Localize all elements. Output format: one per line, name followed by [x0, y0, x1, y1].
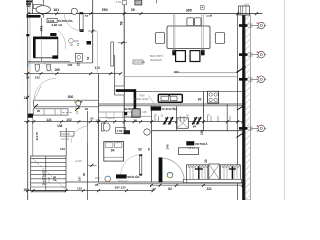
washing machine	[75, 53, 82, 61]
svg-text:94: 94	[193, 125, 197, 129]
svg-text:35: 35	[131, 8, 135, 12]
corner tick band	[34, 104, 38, 108]
svg-text:385: 385	[186, 9, 192, 13]
svg-text:94: 94	[111, 149, 115, 153]
svg-text:4.2 m2: 4.2 m2	[61, 137, 69, 141]
svg-text:165: 165	[67, 63, 72, 67]
detska label box	[186, 141, 194, 145]
stairs treads	[31, 158, 66, 187]
right wall tick y70	[237, 67, 246, 73]
bath door stub	[50, 33, 56, 36]
wc fixture 1	[35, 65, 40, 72]
dashed corridor segment	[63, 112, 73, 114]
stairs center rail	[45, 156, 47, 191]
wall left vertical	[27, 0, 29, 200]
svg-text:148: 148	[57, 124, 63, 128]
wall washbasin left	[32, 0, 34, 14]
armchair X	[209, 164, 220, 179]
wall rooms divider y130.7	[152, 130, 243, 132]
wall mid band left end	[33, 100, 35, 107]
door leaf 2	[111, 42, 114, 66]
wall dining x174 over table	[172, 13, 174, 52]
door label circle bathroom	[69, 39, 74, 44]
mid dim line y73.6	[24, 73, 121, 75]
svg-text:BUD.OBÝV.: BUD.OBÝV.	[150, 54, 164, 58]
right wall tick y135	[237, 133, 245, 138]
shaft box	[115, 86, 125, 95]
dim ext x97	[96, 31, 98, 74]
door4 caps	[139, 154, 142, 156]
svg-text:245: 245	[166, 144, 170, 149]
svg-text:13.04 m2: 13.04 m2	[188, 146, 200, 150]
wall x124 lower	[123, 95, 125, 131]
leader line	[149, 96, 156, 107]
shower2 X box	[177, 118, 188, 129]
entry door arc	[64, 14, 81, 31]
black box door label	[124, 130, 130, 134]
svg-text:150: 150	[200, 129, 204, 135]
corridor door diagonal	[34, 86, 41, 100]
gray pier top	[135, 0, 142, 5]
svg-text:2.5: 2.5	[53, 176, 57, 181]
svg-text:1.08: 1.08	[141, 110, 147, 114]
tick pair satnik	[88, 164, 97, 166]
kitchen sink unit	[158, 94, 182, 102]
wall bathroom divider	[40, 18, 42, 61]
door label box LED	[116, 128, 126, 134]
svg-text:100: 100	[248, 26, 253, 29]
sofa2	[221, 165, 241, 180]
svg-text:140: 140	[60, 147, 65, 151]
faint dashed grid line	[22, 30, 24, 108]
wc fixture 2	[47, 65, 51, 71]
svg-text:20: 20	[77, 62, 81, 66]
svg-text:26: 26	[24, 188, 28, 192]
spalna label box	[116, 174, 127, 178]
svg-text:102: 102	[66, 118, 72, 122]
svg-text:4x175: 4x175	[35, 132, 39, 141]
svg-text:+3,20: +3,20	[75, 159, 83, 163]
wall segment black top-left	[27, 15, 41, 18]
marker specks	[257, 23, 259, 24]
wall x176.5	[176, 106, 178, 131]
circle marker mid	[144, 129, 150, 135]
shower	[34, 37, 58, 58]
svg-text:300: 300	[68, 95, 74, 99]
svg-text:192: 192	[102, 8, 108, 12]
tick bottom x83	[82, 189, 85, 192]
door3 black leaf	[159, 157, 163, 182]
svg-text:1.61: 1.61	[116, 0, 122, 4]
tick crosses y109	[75, 106, 80, 111]
svg-text:95: 95	[90, 117, 94, 121]
wall mid band left upper	[34, 99, 99, 101]
corridor door marker	[76, 101, 81, 106]
right wall thin line	[237, 13, 239, 201]
wall x227.2	[226, 104, 228, 131]
kitchen room label row	[151, 106, 162, 110]
bathroom label box	[47, 19, 57, 23]
line y116 right	[124, 115, 151, 117]
svg-text:57: 57	[85, 14, 89, 18]
section marker row 1	[239, 22, 267, 29]
dim tick hall	[88, 30, 97, 32]
svg-text:3xJKHNE: 3xJKHNE	[134, 60, 146, 64]
wc door arc	[41, 63, 53, 75]
bottom dim line	[28, 190, 153, 192]
circle marker detska	[167, 172, 173, 178]
chair top 1	[187, 18, 194, 26]
svg-text:95: 95	[37, 109, 41, 113]
door swing corridor	[34, 78, 56, 100]
top dim line	[28, 13, 263, 15]
chair top 2	[195, 18, 201, 26]
svg-text:KANAL Ø110: KANAL Ø110	[133, 97, 149, 101]
svg-text:125: 125	[95, 119, 100, 123]
stairs outline	[31, 156, 66, 191]
chair right	[215, 33, 224, 44]
svg-text:100: 100	[248, 55, 253, 58]
svg-text:162: 162	[35, 75, 40, 79]
bathroom bottom wall	[28, 61, 70, 63]
toilet 2	[101, 123, 104, 131]
bottom dim inner	[150, 184, 243, 186]
tick x27 y97	[26, 96, 29, 99]
svg-text:82: 82	[168, 187, 172, 191]
stairwell wall x66	[65, 128, 67, 156]
bath door arc	[58, 31, 66, 49]
svg-text:245: 245	[95, 176, 100, 180]
svg-text:4.98 m2: 4.98 m2	[51, 23, 62, 27]
svg-text:2 4 6: 2 4 6	[47, 177, 51, 183]
svg-text:85: 85	[82, 172, 86, 176]
svg-text:120: 120	[77, 187, 82, 191]
svg-text:6: 6	[148, 147, 150, 151]
entry door leaf	[80, 13, 84, 31]
stairs bottom double	[31, 191, 66, 193]
sofa1	[187, 165, 209, 180]
svg-text:221: 221	[207, 187, 213, 191]
section marker row 3	[239, 76, 267, 83]
svg-text:16x175x25: 16x175x25	[42, 170, 46, 185]
wall mid band left lower	[34, 106, 99, 108]
section marker row 2	[239, 51, 267, 58]
svg-text:D06: D06	[74, 39, 79, 43]
wall mid right double	[99, 103, 244, 105]
dim row extra strokes y119	[155, 116, 230, 122]
tick left x27	[26, 34, 29, 36]
svg-text:30: 30	[204, 159, 208, 163]
svg-text:100: 100	[248, 129, 253, 132]
wall bedroom left x97.3	[98, 74, 100, 182]
stove	[208, 91, 219, 103]
kitchen lower cabinets	[99, 112, 132, 118]
satnik door arc	[71, 127, 88, 144]
svg-text:35: 35	[134, 119, 138, 123]
washbasin oval	[36, 6, 50, 14]
svg-text:26: 26	[95, 183, 99, 187]
circle marker spalna	[105, 176, 111, 182]
wall stub y51 dining	[172, 50, 176, 56]
svg-text:PDK: PDK	[140, 94, 146, 98]
kitchen black bar horizontal	[116, 89, 135, 92]
section marker row 4	[239, 125, 267, 132]
svg-text:13.6 m2: 13.6 m2	[118, 179, 129, 183]
wardrobe row corridor	[33, 109, 68, 115]
right wall insulation hatch	[245, 15, 250, 200]
desk	[178, 148, 198, 155]
svg-text:90: 90	[198, 97, 202, 101]
shower corner blob	[52, 55, 58, 58]
dining table	[167, 26, 210, 49]
lamp square	[201, 6, 205, 10]
dim line 450 closing	[174, 72, 238, 74]
wall dining x202.5 over table	[201, 13, 203, 52]
right wall tick y107	[237, 106, 244, 111]
door4 arc	[121, 155, 141, 175]
svg-text:27: 27	[152, 187, 156, 191]
top-left text block	[26, 1, 32, 7]
washbasin counter	[33, 5, 41, 9]
stairs cut line	[32, 158, 65, 189]
wall x203.6	[203, 91, 205, 130]
svg-text:341: 341	[40, 26, 44, 32]
main interior dim line y121.7	[24, 121, 243, 123]
svg-text:92: 92	[138, 147, 142, 151]
tick door2	[118, 42, 127, 44]
chair left	[155, 33, 164, 44]
svg-text:185: 185	[54, 68, 60, 72]
black door stub	[87, 41, 92, 45]
svg-text:SPÁLŇA: SPÁLŇA	[127, 174, 140, 179]
svg-text:26: 26	[26, 75, 30, 79]
svg-text:100: 100	[248, 80, 253, 83]
svg-text:450: 450	[174, 70, 179, 74]
kitchen counter line	[136, 90, 242, 92]
tick x156	[155, 0, 157, 3]
paper edge	[284, 0, 286, 200]
door3 arc	[163, 158, 185, 181]
svg-text:297 132: 297 132	[115, 186, 126, 190]
svg-text:+8.5: +8.5	[244, 3, 250, 7]
satnik label box	[60, 132, 74, 137]
svg-text:58: 58	[120, 21, 124, 25]
right wall black bar	[242, 15, 245, 200]
wall interior x124.2	[123, 3, 125, 95]
arrow right of wall	[206, 15, 212, 17]
colored specks hall	[77, 43, 79, 44]
wall bottom double	[66, 181, 250, 183]
wall x43 top	[42, 0, 44, 18]
shelf bottom	[183, 179, 241, 182]
door4 leaf	[140, 155, 142, 175]
svg-text:26: 26	[85, 107, 89, 111]
heavy ticks	[164, 117, 202, 125]
colored specks left line	[27, 64, 29, 65]
bed	[104, 142, 124, 162]
bar stool 2	[190, 51, 200, 62]
door marker circle D	[71, 8, 77, 14]
black pier left	[28, 114, 33, 118]
tiny mark	[103, 8, 104, 9]
wall niche x114.7	[114, 55, 116, 95]
svg-text:181: 181	[53, 8, 59, 12]
label box dining	[133, 60, 143, 64]
dining zone line	[124, 76, 237, 78]
wall x151.5	[151, 106, 153, 182]
svg-text:KUCHYŇA: KUCHYŇA	[162, 106, 178, 111]
wall hall x90.7	[92, 0, 94, 63]
bar stool 1	[176, 51, 186, 62]
kitchen black bar vertical	[134, 89, 137, 110]
black stub x124	[124, 112, 127, 115]
svg-text:54: 54	[86, 56, 90, 60]
wall satnik x87.6	[87, 111, 89, 200]
top-right column box	[239, 6, 250, 15]
svg-text:1.50: 1.50	[117, 129, 123, 133]
gray pier mid	[132, 109, 140, 118]
